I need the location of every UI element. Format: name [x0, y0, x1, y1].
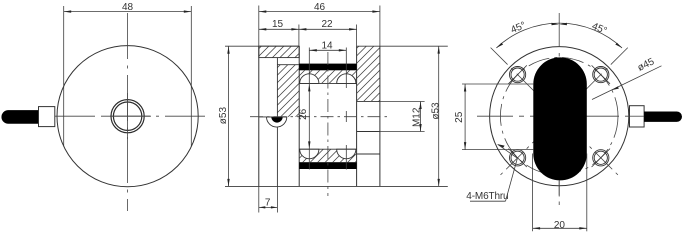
- svg-text:ø53: ø53: [431, 102, 442, 120]
- seal band top (black): [299, 64, 356, 71]
- svg-text:20: 20: [554, 220, 566, 231]
- bracket clamp section (hatched, top-left): [259, 46, 299, 57]
- dimension phi53 (middle view): [438, 46, 440, 186]
- horizontal centerline (left view): [55, 115, 206, 117]
- left face: [258, 46, 260, 186]
- pulley left face: [298, 46, 300, 186]
- dimension 7: [259, 186, 278, 212]
- housing circle phi53 (left view): [57, 46, 198, 187]
- ball center line right: [345, 48, 347, 89]
- bottom edge long line: [225, 185, 448, 187]
- svg-text:15: 15: [272, 19, 284, 30]
- hub center mark: [104, 115, 151, 117]
- seal band bottom (black): [299, 162, 356, 169]
- dimension 22: [299, 25, 357, 47]
- dimension 15: [259, 25, 299, 47]
- ball center line left / 26 dim line: [308, 48, 310, 170]
- load cell body section (hatched, left): [277, 65, 299, 117]
- dimension phi53 (left view): [227, 46, 229, 186]
- dimension M12: [378, 102, 425, 132]
- housing circle (right view): [490, 47, 629, 186]
- cable boss (left view): [39, 107, 55, 127]
- svg-text:48: 48: [122, 2, 134, 13]
- right flat edge line (left view): [190, 6, 192, 147]
- svg-text:25: 25: [454, 111, 465, 123]
- centerline through boss: [630, 115, 645, 117]
- bolt hole top-left M6: [508, 65, 526, 83]
- centerline long dash below slot: [558, 181, 560, 197]
- vertical centerline (middle view): [327, 52, 329, 196]
- bearing outer band top (hatched): [299, 70, 356, 83]
- cable hole counterbore (white): [267, 117, 287, 127]
- cable section (black half disc): [271, 117, 282, 123]
- angular dimension arc 45+45: [496, 23, 622, 48]
- svg-text:4-M6Thru: 4-M6Thru: [466, 191, 508, 202]
- pulley right face: [356, 46, 358, 186]
- bearing outer band bottom (hatched): [299, 149, 356, 162]
- belt slot (black obround): [533, 57, 587, 180]
- svg-text:22: 22: [321, 19, 333, 30]
- diagonal centerline NE-SW: [499, 48, 628, 177]
- dimension 26 arrows: [308, 84, 310, 92]
- bolt hole bottom-right M6: [592, 149, 610, 167]
- pin section (hatched, top-right): [357, 46, 380, 101]
- hub hole inner circle (left view): [113, 102, 141, 130]
- pin step line bottom-right: [357, 153, 380, 155]
- dimension 48 (left view): [64, 10, 192, 12]
- bolt circle phi45 (dash-dot): [500, 57, 618, 175]
- svg-text:M12: M12: [411, 107, 422, 127]
- cable hole flat line: [259, 116, 287, 118]
- phi45 leader: [592, 66, 662, 100]
- svg-text:45°: 45°: [590, 21, 608, 37]
- body step line: [277, 64, 299, 66]
- bolt hole bottom-left M6: [508, 149, 526, 167]
- svg-text:14: 14: [321, 41, 333, 52]
- bracket arm edge: [276, 58, 278, 117]
- M12 hole bottom edge: [357, 131, 380, 133]
- arc end arrow right: [615, 43, 622, 48]
- top edge line right: [357, 45, 448, 47]
- svg-text:ø45: ø45: [636, 56, 657, 74]
- bearing ball top-left: [300, 74, 319, 84]
- left flat edge line (left view): [63, 6, 65, 147]
- svg-text:45°: 45°: [509, 20, 527, 36]
- cable (black rod, left view): [1, 110, 38, 124]
- dimension 25: [462, 84, 533, 150]
- arc end arrow left: [496, 43, 503, 48]
- horizontal centerline (middle view): [250, 116, 388, 118]
- dimension 14: [309, 49, 346, 51]
- bore bottom line: [299, 148, 356, 150]
- vertical centerline (right view): [558, 13, 560, 207]
- bearing ball bottom-left: [300, 149, 319, 159]
- dimension 46: [259, 6, 380, 47]
- apex arrows at vertical centerline: [552, 23, 559, 26]
- bore top line: [299, 82, 356, 84]
- svg-text:ø53: ø53: [218, 107, 229, 125]
- svg-text:46: 46: [314, 2, 326, 13]
- svg-text:7: 7: [265, 197, 271, 208]
- horizontal centerline (right view): [477, 115, 629, 117]
- dimension 20: [533, 154, 587, 232]
- cable boss (right view): [630, 106, 645, 127]
- diagonal centerline NW-SE: [491, 48, 620, 177]
- hub hole outer circle (left view): [111, 100, 144, 133]
- top edge line left (shared ext of phi53 dims + top faces): [225, 45, 299, 47]
- cable rod (right view, black): [644, 112, 682, 122]
- svg-text:26: 26: [298, 108, 309, 120]
- bracket arm edge lower: [276, 127, 278, 186]
- bearing ball bottom-right: [337, 149, 356, 159]
- vertical centerline (left view): [127, 13, 129, 211]
- M12 hole top edge: [357, 100, 380, 102]
- bearing ball top-right: [337, 74, 356, 84]
- bolt hole top-right M6: [592, 65, 610, 83]
- right face: [379, 46, 381, 186]
